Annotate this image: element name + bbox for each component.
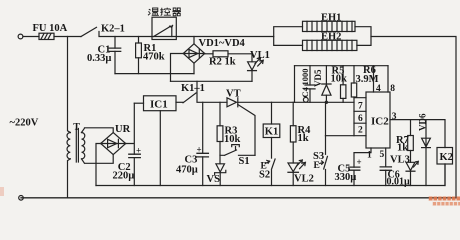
svg-text:2: 2 [358, 126, 363, 136]
svg-text:6: 6 [358, 114, 363, 124]
svg-text:4: 4 [376, 84, 381, 94]
svg-text:S1: S1 [239, 156, 250, 167]
svg-text:FU 10A: FU 10A [33, 23, 68, 34]
svg-text:1k: 1k [397, 143, 408, 154]
svg-text:S2: S2 [259, 170, 270, 181]
svg-text:1k: 1k [298, 133, 309, 144]
svg-text:10k: 10k [331, 74, 348, 85]
svg-text:IC1: IC1 [150, 99, 168, 111]
svg-text:T: T [73, 122, 80, 133]
svg-text:VS: VS [207, 174, 221, 185]
svg-text:UR: UR [115, 124, 131, 135]
svg-text:470k: 470k [143, 52, 165, 63]
svg-text:VD1~VD4: VD1~VD4 [199, 38, 246, 49]
svg-text:~220V: ~220V [10, 118, 39, 129]
svg-text:K1–1: K1–1 [181, 83, 205, 94]
svg-text:+: + [197, 144, 202, 154]
svg-text:EH2: EH2 [321, 32, 341, 43]
svg-text:0.33µ: 0.33µ [87, 53, 111, 64]
svg-text:E: E [314, 161, 320, 171]
svg-text:470µ: 470µ [176, 165, 198, 176]
svg-text:8: 8 [390, 84, 395, 94]
svg-text:VD6: VD6 [418, 113, 428, 131]
svg-text:VL1: VL1 [250, 50, 270, 61]
svg-text:K2: K2 [440, 152, 453, 163]
svg-text:R2 1k: R2 1k [209, 56, 236, 67]
svg-text:K1: K1 [265, 127, 278, 138]
svg-text:VL3: VL3 [390, 154, 410, 165]
svg-text:IC2: IC2 [371, 115, 389, 127]
svg-text:1: 1 [367, 150, 372, 160]
svg-text:1000: 1000 [300, 69, 310, 86]
svg-text:10k: 10k [224, 134, 241, 145]
svg-text:5: 5 [380, 150, 385, 160]
svg-text:VL2: VL2 [294, 173, 314, 184]
svg-text:220µ: 220µ [113, 171, 135, 182]
svg-text:+: + [357, 157, 362, 167]
svg-text:K2–1: K2–1 [101, 24, 125, 35]
svg-text:EH1: EH1 [321, 13, 341, 24]
svg-text:330µ: 330µ [335, 172, 357, 183]
svg-text:+: + [136, 146, 141, 156]
svg-text:VD5: VD5 [313, 69, 323, 87]
svg-text:7: 7 [358, 101, 363, 111]
svg-text:VT: VT [226, 89, 241, 100]
svg-text:C4: C4 [300, 86, 310, 97]
svg-text:3: 3 [392, 112, 397, 122]
